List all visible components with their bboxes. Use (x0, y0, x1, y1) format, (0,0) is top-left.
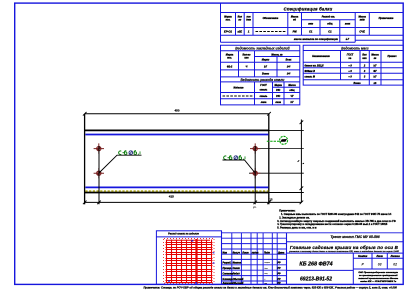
svg-text:РР: РР (278, 268, 282, 270)
leader label L2 line (223, 160, 255, 173)
svg-text:Всего: Всего (262, 73, 270, 76)
svg-text:РМ: РМ (293, 29, 298, 33)
svg-text:масса металла по спецификации: масса металла по спецификации (294, 37, 338, 41)
leader label L2 text (224, 156, 245, 160)
svg-text:3: 3 (364, 70, 366, 73)
top dimension line (85, 113, 269, 115)
svg-text:Ь7: Ь7 (373, 75, 377, 78)
svg-text:РР: РР (278, 263, 282, 265)
svg-text:СЧБ: СЧБ (359, 29, 365, 33)
svg-text:Главные садовые крыши на обрыв: Главные садовые крыши на обрыв по оси В (290, 244, 399, 250)
leader label L1 text (119, 151, 140, 155)
svg-text:Ф7: Ф7 (373, 70, 377, 73)
svg-text:Лист: Лист (375, 256, 382, 258)
title block left grid (222, 233, 404, 285)
table T1 specification grid (221, 3, 404, 42)
svg-text:кд: кд (374, 82, 377, 85)
svg-text:кг/м: кг/м (360, 19, 365, 22)
svg-text:Ь7: Ь7 (346, 37, 350, 41)
beam right edge (268, 114, 270, 205)
red box title line (156, 236, 221, 238)
bottom dimension ticks (83, 201, 271, 205)
svg-text:Р: Р (361, 263, 364, 267)
svg-text:общ: общ (289, 89, 295, 92)
weld symbol green circle (280, 136, 288, 144)
table T2 embedded items grid (221, 45, 300, 105)
title block organization cell (358, 271, 399, 283)
svg-text:Примечание: Словарь по РСЧ-ОВР: Примечание: Словарь по РСЧ-ОВР об общем … (144, 286, 398, 290)
svg-text:лана: лана (260, 101, 267, 104)
svg-text:Провер.: Провер. (223, 268, 232, 270)
svg-text:общ: общ (327, 23, 333, 26)
svg-text:отдел КЖ — УРАЛГИПРОМЕЗ 7в: отдел КЖ — УРАЛГИПРОМЕЗ 7в (360, 280, 397, 283)
svg-text:шт: шт (362, 57, 367, 60)
svg-text:РЮ: РЮ (276, 89, 281, 92)
svg-text:Трест мостн ГМС МУ 05-596: Трест мостн ГМС МУ 05-596 (330, 235, 379, 239)
svg-text:Наименование: Наименование (312, 55, 330, 58)
svg-text:Ч: Ч (246, 65, 248, 68)
svg-text:Лист: Лист (241, 252, 248, 254)
title block outer vertical (222, 231, 287, 285)
svg-text:Ведомость расхода стали: Ведомость расхода стали (241, 78, 285, 82)
svg-text:Кол.уч: Кол.уч (233, 252, 241, 254)
svg-text:Обозначение: Обозначение (263, 17, 279, 20)
svg-text:Спецификация балки: Спецификация балки (284, 6, 333, 11)
svg-text:Стадия: Стадия (358, 255, 368, 258)
svg-text:02: 02 (393, 263, 397, 267)
table T2 texts (226, 53, 292, 75)
svg-text:БР-О1: БР-О1 (224, 29, 232, 33)
svg-text:указания к монтажу балок даны: указания к монтажу балок даны в листах к… (288, 250, 399, 253)
svg-text:сталь М: сталь М (305, 75, 316, 78)
beam bottom edge (84, 192, 269, 194)
svg-text:Дата: Дата (277, 252, 285, 254)
svg-text:Подп: Подп (264, 251, 270, 254)
svg-text:С1: С1 (328, 29, 332, 33)
title block right grid (287, 242, 404, 285)
svg-text:—·: —· (264, 273, 268, 275)
svg-text:кг: кг (374, 57, 377, 60)
svg-text:Масса: Масса (288, 84, 296, 87)
right dimension ticks (300, 121, 304, 205)
svg-text:РЮ: РЮ (276, 95, 281, 98)
beam bottom dashed yellow line (85, 190, 268, 192)
svg-text:вет: вет (308, 23, 314, 26)
svg-text:Ч7: Ч7 (290, 95, 294, 98)
beam top edge (84, 129, 269, 131)
svg-text:Ведомость масс: Ведомость масс (341, 46, 369, 50)
svg-text:Разраб.: Разраб. (223, 262, 232, 265)
svg-text:Масса, кг: Масса, кг (271, 53, 283, 56)
svg-text:ЬЧ: ЬЧ (287, 73, 291, 76)
svg-text:Иванов: Иванов (233, 263, 242, 265)
svg-text:ГОСТ: ГОСТ (260, 84, 267, 87)
svg-text:уп.: уп. (253, 206, 257, 209)
svg-text:Всего: Всего (353, 82, 361, 85)
svg-text:Марки: Марки (262, 59, 270, 62)
svg-text:Обычной: Обычной (233, 278, 244, 281)
svg-text:бетон кл. В22,5: бетон кл. В22,5 (305, 64, 325, 67)
svg-text:15: 15 (270, 198, 273, 202)
marker extension line left (98, 146, 100, 204)
title block signature texts (222, 251, 285, 284)
svg-text:ед: ед (293, 19, 296, 22)
svg-text:Примечание: Примечание (379, 17, 394, 20)
blue specks in mesh (168, 241, 214, 283)
svg-text:С1: С1 (309, 29, 313, 33)
svg-text:2: 2 (363, 64, 366, 67)
title block stage cells (358, 255, 400, 258)
notes block (277, 210, 396, 230)
svg-text:÷ 9: ÷ 9 (348, 64, 352, 67)
svg-text:÷ 9: ÷ 9 (348, 75, 352, 78)
svg-text:КБ 268 ФВ74: КБ 268 ФВ74 (299, 261, 332, 267)
svg-text:5. Размеры даны в мм, отм. в м: 5. Размеры даны в мм, отм. в м (277, 226, 316, 229)
svg-text:всех: всех (345, 23, 351, 26)
svg-text:РР: РР (278, 279, 282, 281)
svg-text:Ф39мм В: Ф39мм В (305, 70, 316, 73)
table T3 texts (305, 53, 398, 85)
svg-text:РР: РР (278, 273, 282, 275)
svg-text:сталь: сталь (260, 95, 268, 98)
svg-text:шт: шт (244, 57, 249, 60)
svg-text:поз.: поз. (226, 19, 231, 22)
svg-text:Изм: Изм (223, 252, 228, 254)
svg-text:Всех: Всех (286, 59, 292, 62)
svg-text:Санин: Санин (233, 268, 241, 270)
svg-text:сталь: сталь (260, 89, 268, 92)
svg-text:·—: ·— (264, 268, 268, 270)
svg-text:3: 3 (364, 75, 366, 78)
svg-text:к2Б: к2Б (238, 29, 243, 33)
svg-text:—·—: —·— (264, 263, 271, 265)
anchor marker M4 bottom-right (250, 168, 260, 178)
table T4 texts (233, 84, 296, 92)
svg-text:во: во (238, 19, 241, 22)
table T1 header text (224, 16, 394, 26)
red mesh heavy vertical (195, 239, 197, 283)
svg-text:тяжелой промышленности Москва: тяжелой промышленности Москва (358, 277, 399, 280)
svg-text:Изделие: Изделие (233, 86, 244, 89)
right dimension extension at marker row 1 (252, 148, 304, 150)
beam left edge (84, 114, 86, 205)
right dimension line (300, 120, 302, 203)
svg-text:Ь7: Ь7 (373, 64, 377, 67)
svg-text:РР: РР (278, 283, 282, 285)
svg-text:№: № (348, 57, 352, 60)
leader label L1 line (99, 155, 141, 172)
beam top blue chord (85, 134, 268, 136)
svg-text:ОАО Промстройпроект институт: ОАО Промстройпроект институт (358, 271, 398, 274)
table T3 mass list grid (303, 45, 403, 85)
red mesh horizontals (166, 240, 213, 282)
right dimension small marks (298, 160, 304, 163)
svg-text:450: 450 (174, 109, 179, 113)
svg-text:69213-В91-52: 69213-В91-52 (300, 276, 332, 282)
beam bottom edge extension (269, 192, 304, 194)
svg-text:Ь7: Ь7 (264, 65, 268, 68)
svg-text:по проектированию предприятий: по проектированию предприятий (359, 274, 398, 277)
svg-text:Листов: Листов (390, 256, 401, 258)
red mesh verticals (167, 240, 212, 283)
anchor marker M2 top-right (250, 143, 260, 153)
red mesh dotted border (164, 239, 215, 284)
svg-text:ЬЧ: ЬЧ (287, 65, 291, 68)
svg-text:Лебед: Лебед (232, 272, 241, 275)
beam top edge extension (269, 129, 304, 131)
svg-text:Н.контр.: Н.контр. (223, 279, 234, 281)
svg-text:Расход стали на изделие: Расход стали на изделие (168, 232, 199, 235)
svg-text:поз.: поз. (227, 57, 232, 60)
svg-text:Ь7: Ь7 (290, 101, 294, 104)
table T1 data row (224, 29, 250, 33)
svg-text:Ф1-2: Ф1-2 (227, 65, 233, 68)
red box frame (156, 231, 221, 285)
svg-text:Ведомость закладных изделий: Ведомость закладных изделий (235, 47, 290, 51)
svg-text:Марка: Марка (275, 84, 283, 87)
anchor marker M3 bottom-left (94, 168, 104, 178)
svg-text:дет: дет (246, 19, 252, 22)
right dimension extension at marker row 2 (249, 172, 304, 174)
weld symbol black blob (280, 139, 287, 142)
bottom dimension line (85, 201, 302, 203)
svg-text:Обычной: Обычной (233, 282, 244, 285)
svg-text:лана: лана (274, 101, 281, 104)
svg-text:Примеч: Примеч (387, 55, 397, 58)
anchor marker M1 top-left (94, 143, 104, 153)
svg-text:÷ 9: ÷ 9 (348, 70, 352, 73)
svg-text:03: 03 (378, 263, 382, 267)
svg-text:·: · (265, 279, 266, 281)
marker extension line right (254, 146, 256, 204)
weld symbol green leader (267, 140, 280, 142)
svg-text:Расход ст.: Расход ст. (322, 16, 336, 19)
beam bottom blue chord (85, 186, 268, 188)
svg-text:1: 1 (248, 29, 250, 33)
svg-text:№док: №док (252, 251, 259, 254)
svg-text:415: 415 (169, 195, 174, 199)
top dimension ticks (83, 112, 271, 116)
